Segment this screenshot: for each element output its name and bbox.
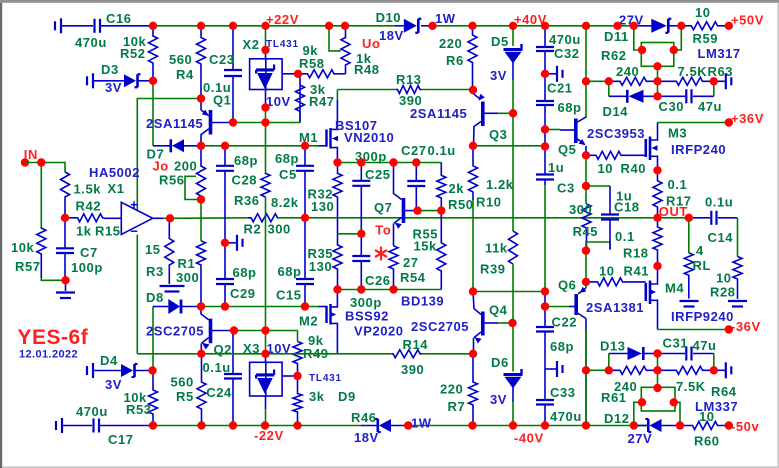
capacitor C31 47u <box>658 353 686 355</box>
svg-text:0.1u: 0.1u <box>428 143 456 158</box>
svg-text:0.1u: 0.1u <box>705 195 733 210</box>
svg-text:M1: M1 <box>299 130 318 145</box>
svg-text:C7: C7 <box>80 245 98 260</box>
svg-text:0.1: 0.1 <box>668 177 688 192</box>
wire M1 source row <box>337 162 441 164</box>
svg-text:C29: C29 <box>230 286 256 301</box>
svg-text:VN2010: VN2010 <box>344 130 394 145</box>
resistor RL 4 <box>688 218 690 253</box>
svg-text:YES-6f: YES-6f <box>18 326 89 349</box>
svg-text:0.1u: 0.1u <box>203 80 231 95</box>
svg-text:D7: D7 <box>147 147 165 162</box>
op-amp X1 HA5002 <box>121 202 152 234</box>
resistor R13 390 <box>338 89 397 91</box>
diode D10 18V <box>395 25 404 27</box>
svg-text:M4: M4 <box>665 281 684 296</box>
svg-text:3V: 3V <box>105 377 122 392</box>
svg-text:D5: D5 <box>491 34 509 49</box>
svg-text:10: 10 <box>699 409 715 424</box>
svg-text:R50: R50 <box>448 197 474 212</box>
svg-text:D13: D13 <box>600 339 626 354</box>
svg-text:-40V: -40V <box>514 431 544 446</box>
main wire mid <box>278 217 689 219</box>
svg-text:3k: 3k <box>309 389 325 404</box>
svg-text:0.1u: 0.1u <box>203 360 231 375</box>
ground at R28 <box>728 300 747 302</box>
diode D4 3V <box>86 366 88 375</box>
wire Q2 emitter row <box>137 353 337 355</box>
svg-text:RL: RL <box>693 258 711 273</box>
wire Q6 emitter chain <box>585 251 587 288</box>
wire R62 node to D14 row <box>657 81 659 96</box>
svg-text:68p: 68p <box>550 339 574 354</box>
resistor R4 560 <box>197 26 206 99</box>
resistor R63 7.5K <box>658 77 714 85</box>
svg-text:10: 10 <box>716 271 732 286</box>
svg-text:470u: 470u <box>550 409 582 424</box>
diode D14 <box>608 81 610 96</box>
svg-text:BD139: BD139 <box>401 294 444 309</box>
resistor R2 300 <box>248 214 278 222</box>
resistor R28 10 <box>737 218 739 257</box>
regulator LM317 box <box>641 43 674 67</box>
capacitor C15 68p <box>304 218 306 279</box>
svg-text:C31: C31 <box>663 336 689 351</box>
svg-text:M2: M2 <box>299 314 318 329</box>
svg-text:R47: R47 <box>309 94 335 109</box>
svg-text:R18: R18 <box>623 246 649 261</box>
resistor R41 10 <box>586 278 646 286</box>
wire input <box>25 163 65 173</box>
wire M2 source row <box>337 289 441 291</box>
svg-text:27: 27 <box>403 255 419 270</box>
svg-text:IN: IN <box>24 147 38 162</box>
resistor R62 240 <box>586 80 609 82</box>
svg-text:D14: D14 <box>603 104 629 119</box>
border frame <box>0 0 779 3</box>
capacitor C3 1u <box>544 147 546 175</box>
terminal stub at C32/C21 <box>545 73 556 75</box>
capacitor C17 470u <box>55 421 57 430</box>
svg-text:15k: 15k <box>414 239 438 254</box>
svg-text:1.5k: 1.5k <box>74 182 102 197</box>
wire Uo loop <box>329 26 341 51</box>
svg-text:IRFP240: IRFP240 <box>671 142 726 157</box>
svg-text:R14: R14 <box>403 337 429 352</box>
capacitor C29 68p <box>224 243 226 279</box>
svg-text:1k: 1k <box>76 224 92 239</box>
resistor R42 1.5k <box>61 172 70 218</box>
svg-text:470u: 470u <box>76 404 108 419</box>
svg-text:X1: X1 <box>108 181 125 196</box>
svg-text:R4: R4 <box>176 67 194 82</box>
svg-text:Q6: Q6 <box>558 278 576 293</box>
svg-text:1.2k: 1.2k <box>486 177 514 192</box>
transistor Q6 2SA1381 <box>578 288 586 294</box>
capacitor C27 0.1u <box>415 163 417 182</box>
svg-text:+: + <box>130 197 138 212</box>
svg-text:C27: C27 <box>401 143 427 158</box>
capacitor C33 470u <box>544 369 546 400</box>
svg-text:R59: R59 <box>693 31 719 46</box>
svg-text:Q4: Q4 <box>489 303 508 318</box>
svg-text:47u: 47u <box>698 99 722 114</box>
svg-text:10: 10 <box>598 161 614 176</box>
svg-text:1W: 1W <box>411 416 432 431</box>
ground at C7 <box>65 280 67 291</box>
svg-text:VP2020: VP2020 <box>354 324 404 339</box>
diode D11 27V <box>634 25 652 27</box>
resistor R1 300 <box>197 241 206 307</box>
svg-text:R13: R13 <box>396 72 422 87</box>
transistor Q3 2SA1145 <box>473 90 480 99</box>
terminal stub right of R64 <box>714 369 725 371</box>
terminal stub at C33/C22 <box>545 368 556 370</box>
svg-text:2SC2705: 2SC2705 <box>411 319 469 334</box>
capacitor C18 1u <box>586 185 610 187</box>
resistor R35 130 <box>333 234 342 290</box>
resistor R7 220 <box>469 354 478 426</box>
svg-text:R48: R48 <box>354 62 380 77</box>
svg-text:2SA1381: 2SA1381 <box>586 300 644 315</box>
svg-text:10: 10 <box>599 264 615 279</box>
shunt X2 TL431 <box>265 26 267 50</box>
svg-text:2SA1145: 2SA1145 <box>410 106 467 121</box>
svg-text:1W: 1W <box>435 11 456 26</box>
svg-text:300: 300 <box>569 202 592 217</box>
wire C25/C26 tap <box>338 233 362 235</box>
zener R46 18V 1W <box>361 425 377 427</box>
wire +22V/+40V top rail <box>153 25 395 27</box>
resistor R58 9k <box>298 70 340 78</box>
resistor R32 130 <box>333 163 342 234</box>
svg-text:R28: R28 <box>710 285 736 300</box>
svg-text:TL431: TL431 <box>309 373 342 384</box>
svg-text:D6: D6 <box>491 355 509 370</box>
capacitor C26 300p <box>360 234 362 256</box>
resistor R14 390 <box>338 353 393 355</box>
svg-text:R54: R54 <box>400 270 426 285</box>
junction dots top rail <box>149 22 157 30</box>
main output wire <box>170 217 248 220</box>
svg-text:OUT: OUT <box>659 204 688 219</box>
wire Q2 base row <box>234 330 298 332</box>
wire Q6 collector bus <box>585 319 587 426</box>
svg-text:68p: 68p <box>278 264 302 279</box>
wire Q5 base row <box>545 129 560 131</box>
capacitor C14 0.1u <box>689 217 710 219</box>
bottom rail -22V/-40V <box>153 425 361 427</box>
wire bus to minus input <box>136 235 138 354</box>
svg-text:LM317: LM317 <box>698 46 741 61</box>
svg-text:18V: 18V <box>354 430 379 445</box>
diode D7 <box>153 145 170 147</box>
red asterisk <box>376 248 386 260</box>
capacitor C24 0.1u <box>232 331 234 375</box>
diode D5 3V zener <box>512 26 514 46</box>
wire C21 to C3 link <box>544 130 546 147</box>
svg-text:R46: R46 <box>351 410 377 425</box>
transistor Q1 2SA1145 <box>200 99 202 111</box>
svg-text:R7: R7 <box>448 399 466 414</box>
capacitor C7 100p <box>64 218 66 249</box>
transistor Q7 BD139 <box>402 198 406 223</box>
svg-text:R62: R62 <box>601 48 627 63</box>
svg-text:R36: R36 <box>234 193 260 208</box>
svg-text:R60: R60 <box>694 434 720 449</box>
transistor Q4 2SC2705 <box>473 292 481 315</box>
wire D5 bus to R39 <box>512 113 514 231</box>
svg-text:To: To <box>375 223 391 238</box>
svg-text:7.5K: 7.5K <box>676 379 706 394</box>
svg-text:+22V: +22V <box>266 12 299 27</box>
svg-text:R58: R58 <box>299 56 325 71</box>
resistor R47 3k <box>296 74 305 123</box>
svg-text:2SC2705: 2SC2705 <box>146 324 204 339</box>
svg-text:470u: 470u <box>75 35 107 50</box>
terminal stub right of R63 <box>714 80 725 82</box>
resistor R50 2k <box>437 163 446 211</box>
svg-text:C28: C28 <box>232 173 258 188</box>
svg-text:C26: C26 <box>365 273 391 288</box>
svg-text:BSS92: BSS92 <box>345 309 389 324</box>
svg-text:C25: C25 <box>365 167 391 182</box>
resistor R3 15 <box>165 218 174 284</box>
svg-text:11k: 11k <box>485 241 508 256</box>
wire R56 to R1 <box>200 200 202 241</box>
svg-text:R40: R40 <box>621 161 647 176</box>
resistor R45 300 <box>582 204 591 251</box>
ground at R3 <box>160 285 185 287</box>
mosfet M1 BS107 VN2010 <box>319 145 327 147</box>
svg-text:10: 10 <box>695 5 711 20</box>
svg-text:10k: 10k <box>11 240 35 255</box>
svg-text:R52: R52 <box>120 46 146 61</box>
svg-text:HA5002: HA5002 <box>89 165 140 180</box>
svg-text:C15: C15 <box>276 288 302 303</box>
svg-text:R56: R56 <box>159 173 185 188</box>
svg-text:100p: 100p <box>71 260 103 275</box>
svg-text:10V: 10V <box>266 94 291 109</box>
junction dots middle <box>37 158 45 166</box>
svg-text:D9: D9 <box>338 389 356 404</box>
wire C18 hook <box>586 242 610 251</box>
svg-text:D3: D3 <box>101 62 119 77</box>
capacitor C5 68p <box>304 146 306 166</box>
svg-text:Uo: Uo <box>362 36 380 51</box>
svg-text:300: 300 <box>176 270 199 285</box>
svg-text:3V: 3V <box>105 80 122 95</box>
svg-text:R64: R64 <box>711 384 737 399</box>
svg-text:Q5: Q5 <box>558 142 576 157</box>
wire Q5 emitter chain <box>585 155 587 204</box>
svg-text:2k: 2k <box>449 181 465 196</box>
svg-text:7.5K: 7.5K <box>678 64 708 79</box>
svg-text:R3: R3 <box>146 264 164 279</box>
svg-text:4: 4 <box>696 243 704 258</box>
svg-text:68p: 68p <box>233 265 257 280</box>
svg-text:R63: R63 <box>708 64 734 79</box>
wire Q1 gate row <box>201 145 319 147</box>
loop box Jo <box>185 176 201 199</box>
svg-text:0.1: 0.1 <box>615 229 635 244</box>
mosfet M4 IRFP9240 <box>644 283 647 301</box>
svg-text:8.2k: 8.2k <box>271 195 299 210</box>
svg-text:C24: C24 <box>206 385 232 400</box>
svg-text:C22: C22 <box>552 315 578 330</box>
resistor R55 15k <box>437 211 446 290</box>
svg-text:R53: R53 <box>126 402 152 417</box>
svg-text:IRFP9240: IRFP9240 <box>671 309 734 324</box>
resistor R59 10 <box>681 22 729 30</box>
diode D12 27V <box>634 425 648 427</box>
svg-text:390: 390 <box>401 362 424 377</box>
svg-text:R15: R15 <box>95 224 121 239</box>
resistor R60 10 <box>680 422 729 430</box>
svg-text:47u: 47u <box>693 338 717 353</box>
svg-text:C21: C21 <box>547 81 573 96</box>
svg-text:D11: D11 <box>604 29 629 44</box>
resistor R6 220 <box>468 26 477 90</box>
svg-text:Q3: Q3 <box>489 127 507 142</box>
resistor R5 560 <box>197 354 206 426</box>
svg-text:R1: R1 <box>178 256 196 271</box>
svg-text:D10: D10 <box>376 10 402 25</box>
wire Q3 collector row <box>473 145 545 147</box>
svg-text:R2: R2 <box>244 222 262 237</box>
svg-text:R10: R10 <box>476 195 502 210</box>
svg-text:130: 130 <box>309 259 332 274</box>
svg-text:3V: 3V <box>490 392 507 407</box>
svg-text:−: − <box>130 224 138 239</box>
svg-text:470u: 470u <box>549 32 581 47</box>
resistor R39 11k <box>509 231 518 264</box>
resistor R53 10k <box>149 371 158 426</box>
svg-text:200: 200 <box>174 159 197 174</box>
resistor R52 10k <box>149 26 158 81</box>
svg-text:R42: R42 <box>76 199 102 214</box>
resistor R15 1k <box>65 214 104 222</box>
svg-text:C3: C3 <box>557 181 575 196</box>
svg-text:2SC3953: 2SC3953 <box>587 126 645 141</box>
svg-text:C16: C16 <box>106 11 132 26</box>
svg-text:560: 560 <box>169 52 192 67</box>
wire Q4 collector row <box>473 291 545 293</box>
diode D3 3V <box>86 76 88 85</box>
svg-text:560: 560 <box>171 375 194 390</box>
wire D13 to R61 node <box>657 354 659 371</box>
resistor R56 200 <box>197 146 206 200</box>
svg-text:27V: 27V <box>628 431 653 446</box>
svg-text:Q2: Q2 <box>214 342 232 357</box>
svg-text:R57: R57 <box>15 259 41 274</box>
wire +50 bus upper <box>585 26 587 118</box>
svg-text:-36V: -36V <box>731 319 761 334</box>
capacitor C30 47u <box>658 95 686 97</box>
svg-text:12.01.2022: 12.01.2022 <box>19 349 78 361</box>
capacitor C16 <box>54 21 56 30</box>
svg-text:68p: 68p <box>558 100 582 115</box>
svg-text:C30: C30 <box>659 99 685 114</box>
svg-text:R61: R61 <box>601 390 627 405</box>
svg-text:240: 240 <box>616 64 639 79</box>
svg-text:2SA1145: 2SA1145 <box>146 116 203 131</box>
mosfet M3 IRFP240 <box>644 139 647 157</box>
diode D13 <box>608 354 610 371</box>
svg-text:C32: C32 <box>554 46 580 61</box>
transistor Q5 2SC3953 <box>574 119 578 144</box>
svg-text:M3: M3 <box>668 126 687 141</box>
svg-text:220: 220 <box>439 36 462 51</box>
svg-text:R45: R45 <box>573 224 599 239</box>
svg-text:220: 220 <box>440 382 463 397</box>
shunt X3 TL431 <box>265 331 267 354</box>
wire R57 to ground node <box>41 278 65 280</box>
wire feedback bus x137 <box>137 99 201 211</box>
capacitor C21 68p <box>544 74 546 101</box>
svg-text:68p: 68p <box>275 151 299 166</box>
svg-text:C5: C5 <box>279 167 297 182</box>
mosfet M2 BSS92 VP2020 <box>319 306 327 308</box>
wire Q7 base row <box>418 210 442 212</box>
wire D3-D7 column lower <box>152 307 154 371</box>
svg-text:R39: R39 <box>480 262 506 277</box>
resistor R18 0.1 <box>653 218 662 266</box>
capacitor C23 0.1u <box>232 26 234 70</box>
svg-text:3V: 3V <box>490 68 507 83</box>
junction dots upper area <box>261 46 269 54</box>
resistor R48 1k <box>340 73 346 75</box>
svg-text:300: 300 <box>268 222 291 237</box>
svg-text:R41: R41 <box>624 264 650 279</box>
svg-text:X2: X2 <box>243 37 260 52</box>
svg-text:+50V: +50V <box>731 13 764 28</box>
resistor R57 10k <box>37 227 46 278</box>
resistor R36 8.2k <box>265 123 267 174</box>
resistor R10 1.2k <box>469 146 478 200</box>
diode D8 <box>153 306 168 308</box>
diode D6 3V zener <box>512 323 514 372</box>
wire Q2 gate row <box>201 306 319 308</box>
wire node below D3 <box>152 81 154 146</box>
svg-text:68p: 68p <box>234 153 258 168</box>
wire Q1 base row <box>233 122 300 124</box>
svg-text:TL431: TL431 <box>266 39 299 50</box>
resistor R17 0.1 <box>653 170 662 218</box>
resistor R49 9k <box>297 331 299 342</box>
junction dots bottom rail <box>149 421 157 429</box>
capacitor C32 470u <box>544 26 546 47</box>
capacitor C25 300p <box>360 163 362 181</box>
svg-text:1u: 1u <box>548 160 564 175</box>
svg-text:C18: C18 <box>614 200 640 215</box>
resistor R40 10 <box>586 151 646 159</box>
ground at RL <box>680 300 699 302</box>
terminal stub mid-left <box>225 242 236 244</box>
node IN <box>21 158 29 166</box>
svg-text:-22V: -22V <box>254 428 284 443</box>
svg-text:15: 15 <box>145 242 161 257</box>
svg-text:C17: C17 <box>108 432 134 447</box>
svg-text:C14: C14 <box>708 230 734 245</box>
svg-text:C33: C33 <box>550 385 576 400</box>
svg-text:-50v: -50v <box>731 419 759 434</box>
svg-text:D8: D8 <box>146 290 164 305</box>
svg-text:18V: 18V <box>379 28 404 43</box>
wire to R57 <box>40 163 42 228</box>
capacitor C28 68p <box>224 146 226 166</box>
svg-text:R6: R6 <box>446 53 464 68</box>
